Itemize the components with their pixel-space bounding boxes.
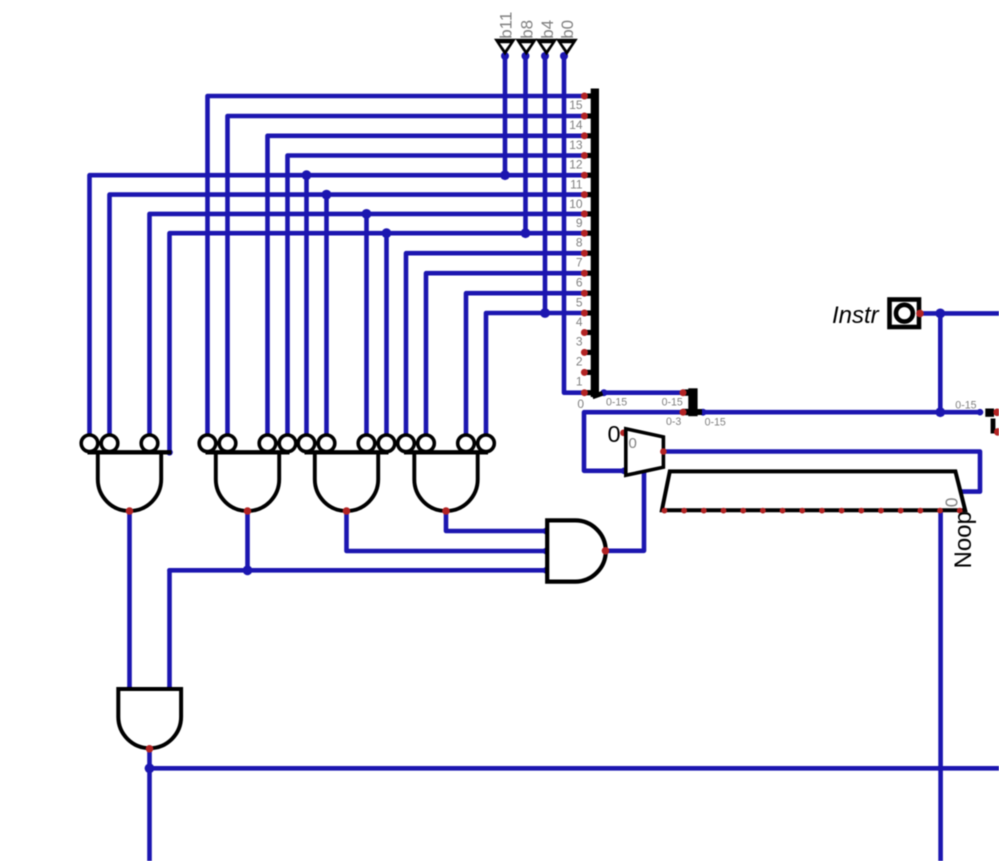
node AND5 input2 end (wire end) (166, 686, 173, 693)
wire gate3 input tap bit9 (364, 214, 369, 435)
wire tunnel b11 to bit11 row (503, 55, 508, 175)
wire net gate2 out down to AND5 (167, 570, 172, 689)
svg-text:b0: b0 (558, 20, 577, 39)
wire bit15 row to gate2 input (208, 96, 585, 435)
gate G1 (AND, inputs inverted except bit8) (81, 435, 171, 515)
wire gate3 input tap bit10 (324, 195, 329, 436)
svg-text:0-15: 0-15 (955, 399, 976, 411)
node J6 b8/bit8 (junction) (521, 228, 531, 238)
node gate1 input4 end (wire end) (166, 449, 173, 456)
wire gate3 output to AND4 (347, 512, 547, 551)
svg-text:0-15: 0-15 (705, 416, 726, 428)
svg-text:0: 0 (577, 397, 584, 411)
svg-text:12: 12 (569, 158, 583, 172)
wire bit6 row to gate4 input (426, 273, 585, 435)
node AND4 in1 end (wire end) (543, 528, 550, 535)
wire splitter1 root to splitter2 (604, 390, 683, 395)
wire tunnel b8 to bit8 row (523, 55, 528, 233)
splitter S2 (0-15 / 0-3) (680, 388, 703, 416)
node J2 gate3-in1/bit11 (junction) (302, 170, 312, 180)
node MUX in1 end (wire end) (621, 468, 628, 475)
svg-text:13: 13 (569, 138, 583, 152)
wire gate3 input tap bit11 (304, 175, 309, 435)
node J7 b4/bit4 (junction) (540, 308, 550, 318)
wire bit11 row to gate1 input (90, 175, 585, 435)
svg-text:5: 5 (576, 295, 583, 309)
wire tunnel b0 to bit0 row (564, 55, 585, 393)
node tunnel b0 apex (wire end) (560, 52, 568, 60)
node J4 gate3-in3/bit9 (junction) (362, 209, 372, 219)
svg-text:0: 0 (608, 421, 621, 447)
node tunnel b4 apex (wire end) (541, 52, 549, 60)
svg-text:Instr: Instr (832, 302, 880, 329)
wire bit5 row to gate4 input (466, 293, 585, 435)
svg-text:b11: b11 (496, 12, 515, 39)
node J1 b11/bit11 (junction) (500, 170, 510, 180)
node J11 bus0-15 tap (junction) (935, 407, 945, 417)
node DEMUX select end (wire end) (956, 488, 963, 495)
wire bit10 row to gate1 input (110, 195, 585, 436)
svg-text:b4: b4 (538, 20, 557, 39)
demultiplexer DEMUX1 (1:16, facing down, label Noop) (662, 471, 966, 513)
svg-text:11: 11 (570, 177, 583, 191)
svg-text:0-3: 0-3 (666, 416, 681, 428)
wire net gate2 out across (170, 568, 547, 573)
wire bottom bus right (150, 766, 999, 771)
svg-text:4: 4 (576, 315, 583, 329)
node J3 gate3-in2/bit10 (junction) (322, 190, 332, 200)
tunnel b0 (556, 20, 578, 56)
gate G2 (AND, all inputs inverted) (199, 435, 296, 515)
wire AND5 output down (147, 749, 152, 861)
svg-text:15: 15 (569, 98, 583, 112)
svg-text:10: 10 (569, 197, 583, 211)
wire bit7 row to gate4 input (406, 253, 585, 435)
wire bit14 row to gate2 input (228, 116, 585, 435)
wire bit9 row to gate1 input (150, 214, 585, 435)
svg-text:Noop: Noop (950, 511, 977, 568)
splitter S1 leg labels (569, 98, 584, 411)
node AND5 input1 end (wire end) (126, 686, 133, 693)
gate AND5 (2-input AND facing down) (118, 689, 181, 753)
tunnel b4 (536, 20, 558, 56)
gate AND4 (3-input AND facing right) (547, 520, 609, 581)
node J5 gate3-in4/bit8 (junction) (382, 228, 392, 238)
multiplexer MUX1 (2:1, facing right) (626, 429, 667, 476)
wire gate1 output to AND5 input (127, 512, 132, 689)
node MUX select end (wire end) (641, 467, 648, 474)
svg-text:7: 7 (576, 255, 583, 269)
wire DEMUX output down (938, 511, 943, 861)
node AND4 in2 end (wire end) (543, 548, 550, 555)
gate G4 (AND, all inputs inverted) (398, 435, 495, 515)
node AND4 in3 end (wire end) (543, 567, 550, 574)
node tunnel b11 apex (wire end) (501, 52, 509, 60)
svg-text:8: 8 (576, 235, 583, 249)
svg-text:0-15: 0-15 (662, 396, 683, 408)
wire Instr down to bus (938, 313, 943, 412)
wire gate4 output to AND4 (446, 512, 546, 531)
svg-text:b8: b8 (518, 20, 537, 39)
node J14 wire end at splitter3 (junction) (977, 409, 984, 416)
node J8 gate2-net (junction) (243, 565, 253, 575)
wire MUX output to DEMUX select (663, 452, 980, 492)
svg-text:1: 1 (576, 375, 583, 389)
node J13 splitter2 root (junction) (700, 409, 707, 416)
wire bit4 row to gate4 input (486, 313, 585, 435)
node J12 splitter1 root (junction) (600, 389, 607, 396)
wire AND4 output to MUX select (606, 471, 645, 551)
wire bit12 row to gate2 input (288, 156, 585, 436)
constant 0 (MUX input) (608, 421, 627, 447)
tunnel b11 (494, 12, 516, 56)
wire bit8 row to gate1 input (non-inverted) (170, 233, 585, 452)
svg-text:6: 6 (576, 275, 583, 289)
wire gate3 input tap bit8 (384, 233, 389, 435)
svg-text:2: 2 (576, 355, 583, 369)
tunnel b8 (515, 20, 537, 56)
node J10 Instr tap (junction) (935, 309, 945, 319)
svg-text:14: 14 (569, 118, 583, 132)
wire splitter2 leg 0-3 to MUX input (584, 412, 683, 471)
svg-text:0: 0 (629, 435, 637, 452)
wire bit13 row to gate2 input (268, 136, 585, 435)
svg-text:0: 0 (941, 497, 961, 507)
wire Instr pin output wire (920, 311, 999, 316)
wire splitter2 root to right (703, 410, 980, 415)
svg-text:0-15: 0-15 (606, 396, 627, 408)
svg-text:9: 9 (576, 216, 583, 230)
splitter S1 16-bit fanout 16 (581, 89, 603, 398)
input pin Instr (890, 300, 924, 328)
splitter S3 (right edge, partially visible) (985, 409, 999, 436)
node tunnel b8 apex (wire end) (522, 52, 530, 60)
gate G3 (AND, all inputs inverted) (298, 435, 395, 515)
node J9 AND5-out bus (junction) (145, 763, 155, 773)
svg-text:3: 3 (576, 335, 583, 349)
wire gate2 output down (245, 512, 250, 571)
wire tunnel b4 to bit4 row (543, 55, 548, 313)
